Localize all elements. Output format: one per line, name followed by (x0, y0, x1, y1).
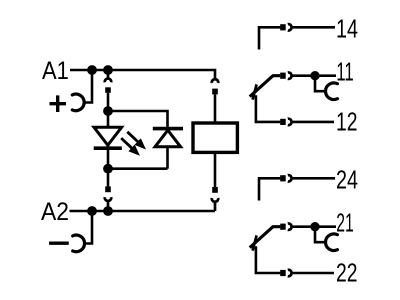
wire A2 rail (70, 210, 216, 213)
contact lever 21-22-24 (250, 227, 281, 248)
wire LED node to A2 pin (107, 169, 110, 187)
wire 14 (293, 26, 335, 29)
wire 12 (293, 121, 334, 124)
wire minus branch (84, 211, 92, 244)
svg-text:A1: A1 (42, 57, 69, 85)
plug-in contact 11 pin (280, 73, 286, 79)
plug-in contact 22 pin (280, 270, 286, 276)
node bottom LED/diode (103, 164, 113, 174)
plug-in contact A1 socket (105, 75, 111, 83)
plug-in contact coil-top pin (212, 89, 218, 95)
wire plus branch (83, 70, 92, 103)
wire pin to coil (214, 94, 217, 123)
wire A1 rail (70, 70, 215, 78)
LED arrow 2 (121, 138, 140, 156)
contact tick (253, 84, 257, 99)
plug-in contact A1 pin (105, 87, 111, 93)
freewheel diode cathode bar (153, 127, 183, 131)
svg-text:14: 14 (336, 13, 358, 43)
wire coil bottom (214, 152, 217, 187)
wire pole rail to 22 (256, 246, 281, 273)
minus sign (49, 241, 69, 244)
junction dot 11 (310, 71, 319, 80)
wire 24 (293, 177, 335, 180)
junction dot A1 plug-branch (103, 65, 113, 75)
wire 11 socket branch (315, 80, 326, 91)
svg-text:A2: A2 (41, 198, 69, 226)
wire 11 (293, 74, 336, 77)
node top LED/diode (103, 106, 113, 116)
wire pole rail to 12 (256, 95, 281, 122)
plug-in contact 14 pin (280, 24, 286, 30)
freewheel diode triangle (155, 130, 181, 147)
NO contact 14 hook and wire (259, 27, 280, 49)
LED triangle (94, 127, 122, 145)
plug-in contact A2 socket (105, 197, 111, 211)
wire 21 (293, 225, 336, 228)
plug-in contact 12 pin (280, 119, 286, 125)
wire bottom branch (108, 167, 168, 170)
plug-in contact 11 socket (288, 73, 292, 79)
svg-text:24: 24 (336, 164, 358, 194)
test socket plus (72, 94, 84, 111)
junction dot A2 minus-branch (87, 206, 97, 216)
plug-in contact coil-top socket (212, 79, 218, 83)
diode lead (166, 128, 169, 169)
LED cathode bar (94, 146, 122, 150)
plug-in contact 14 socket (288, 24, 292, 30)
wire 21 socket branch (315, 231, 326, 242)
junction dot 21 (310, 222, 319, 231)
test socket 21 (326, 234, 338, 251)
wire pin to LED node (107, 93, 110, 111)
plug-in contact 22 socket (288, 270, 292, 276)
plug-in contact coil-bottom socket (212, 198, 218, 211)
plug-in contact 12 socket (288, 119, 292, 125)
svg-text:12: 12 (336, 106, 358, 136)
junction dot A2 plug-branch (103, 206, 113, 216)
relay coil K1 (193, 123, 237, 152)
plus sign (50, 95, 67, 112)
test socket minus (73, 235, 85, 252)
svg-text:11: 11 (336, 56, 354, 86)
plug-in contact 24 socket (288, 175, 292, 181)
wire top branch to diode (108, 111, 168, 127)
contact tick 2 (253, 235, 257, 250)
LED arrow 1 (127, 132, 146, 150)
test socket 11 (326, 83, 338, 100)
NO contact 24 hook and wire (259, 178, 280, 200)
contact lever 11-12-14 (250, 76, 281, 97)
LED lead (107, 111, 110, 169)
junction dot A1 plus-branch (87, 65, 97, 75)
plug-in contact 24 pin (280, 175, 286, 181)
svg-text:21: 21 (336, 207, 354, 237)
svg-text:22: 22 (336, 257, 358, 287)
plug-in contact 21 pin (280, 224, 286, 230)
wire 22 (293, 272, 334, 275)
plug-in contact A2 pin (105, 186, 111, 192)
plug-in contact coil-bottom pin (212, 187, 218, 193)
plug-in contact 21 socket (288, 224, 292, 230)
